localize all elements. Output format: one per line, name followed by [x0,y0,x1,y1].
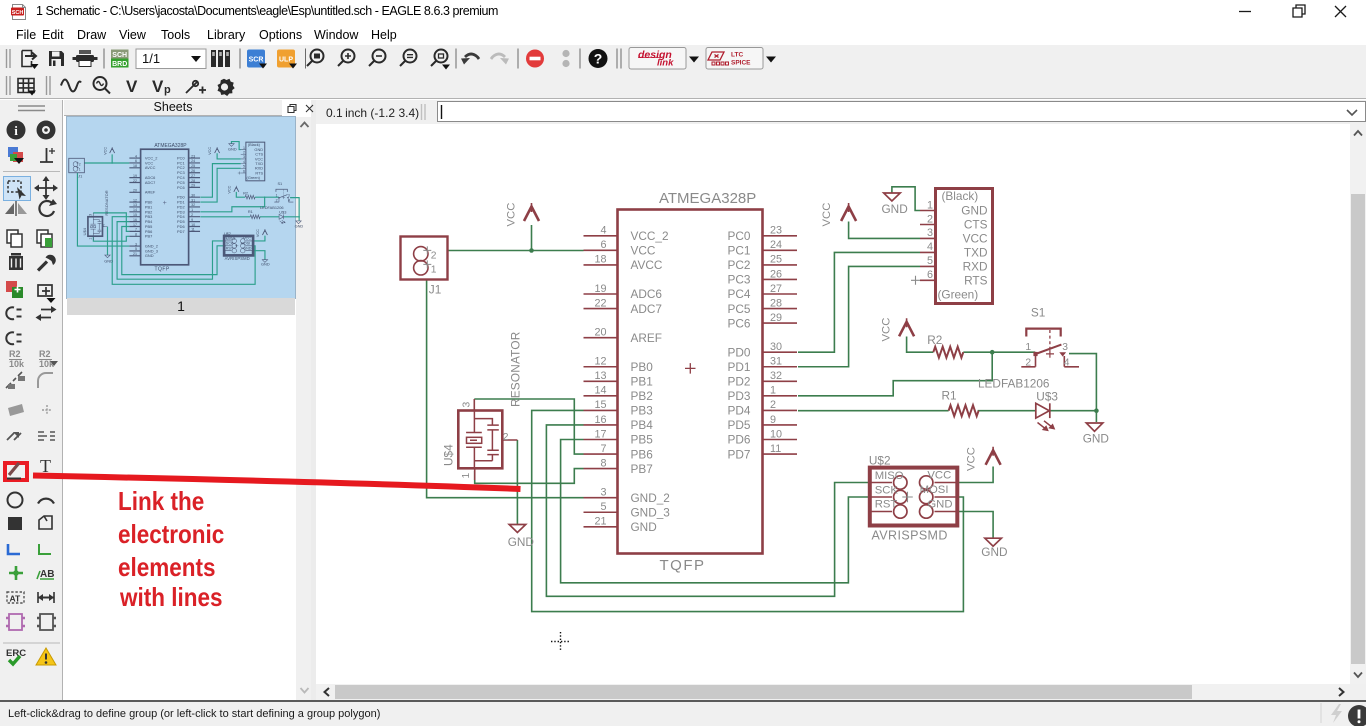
svg-text:BRD: BRD [112,61,127,68]
svg-text:T: T [40,456,51,476]
svg-text:SCH: SCH [112,52,127,59]
svg-text:SPICE: SPICE [731,60,751,67]
svg-text:SCR: SCR [249,57,264,64]
svg-text:p: p [164,84,171,96]
svg-text:ERC: ERC [6,648,26,659]
svg-text:R2: R2 [9,349,21,359]
svg-text:V: V [126,77,138,96]
svg-text:ULP: ULP [279,57,293,64]
svg-text:10k: 10k [9,359,25,369]
svg-text:1/1: 1/1 [142,51,160,66]
svg-text:LTC: LTC [731,52,743,59]
svg-text:SCH: SCH [12,10,24,16]
svg-text:R2: R2 [39,349,51,359]
svg-text:V: V [152,77,164,96]
svg-text:?: ? [594,51,603,67]
svg-text:AT: AT [10,594,22,604]
svg-text:i: i [14,123,18,138]
svg-text:link: link [657,58,674,69]
